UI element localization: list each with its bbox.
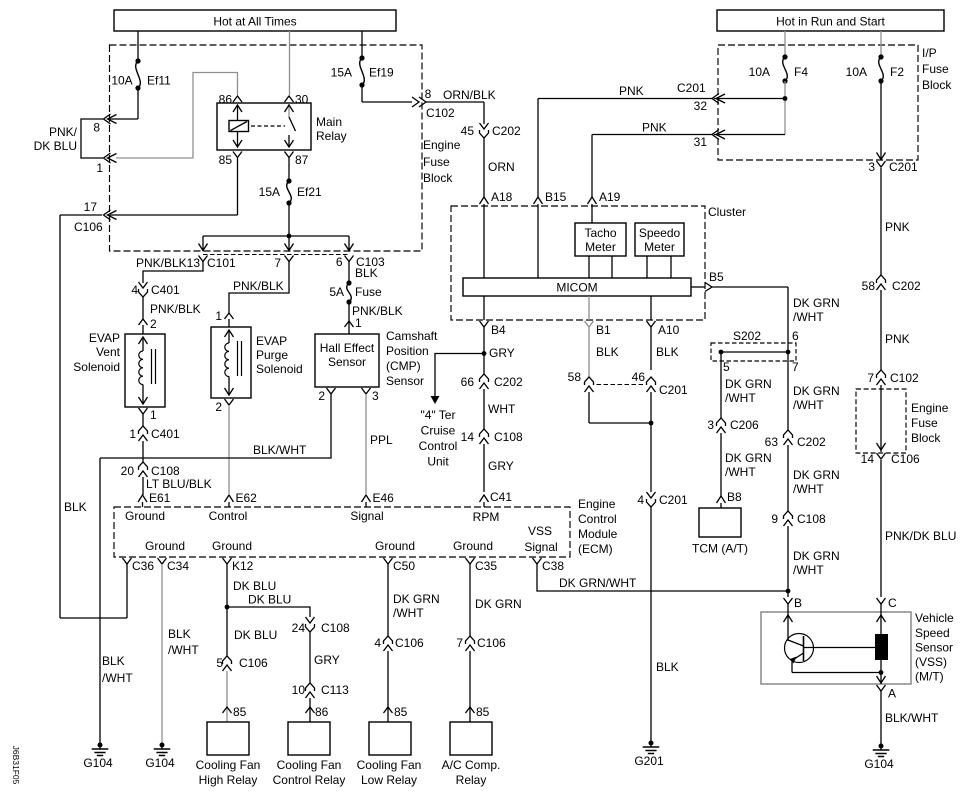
svg-text:Control: Control [209, 509, 248, 523]
svg-text:3: 3 [372, 389, 379, 403]
svg-text:58: 58 [862, 279, 876, 293]
svg-text:BLK: BLK [355, 266, 378, 280]
svg-text:Module: Module [578, 527, 618, 541]
svg-text:C401: C401 [151, 283, 180, 297]
svg-text:B5: B5 [709, 270, 724, 284]
svg-text:BLK/WHT: BLK/WHT [253, 443, 307, 457]
svg-text:2: 2 [318, 389, 325, 403]
svg-text:10A: 10A [111, 74, 132, 88]
svg-text:PPL: PPL [370, 433, 393, 447]
svg-text:Fuse: Fuse [911, 416, 938, 430]
svg-text:C106: C106 [477, 636, 506, 650]
svg-text:Meter: Meter [585, 240, 616, 254]
svg-text:Sensor: Sensor [328, 355, 366, 369]
svg-text:DK GRN: DK GRN [793, 468, 840, 482]
svg-text:E62: E62 [236, 491, 258, 505]
svg-text:DK GRN/WHT: DK GRN/WHT [559, 576, 637, 590]
svg-text:Sensor: Sensor [915, 641, 953, 655]
svg-text:Unit: Unit [427, 455, 449, 469]
svg-text:Main: Main [316, 115, 342, 129]
svg-text:Low Relay: Low Relay [361, 773, 417, 787]
svg-text:85: 85 [219, 153, 233, 167]
svg-text:Position: Position [386, 344, 429, 358]
svg-text:Relay: Relay [456, 773, 487, 787]
svg-text:PNK: PNK [885, 332, 910, 346]
svg-text:Engine: Engine [911, 401, 949, 415]
svg-text:Signal: Signal [524, 540, 557, 554]
svg-text:8: 8 [425, 87, 432, 101]
svg-text:8: 8 [93, 121, 100, 135]
svg-text:PNK/BLK13: PNK/BLK13 [136, 256, 200, 270]
svg-text:87: 87 [295, 153, 309, 167]
svg-text:C: C [888, 596, 897, 610]
svg-text:C102: C102 [426, 106, 455, 120]
svg-text:86: 86 [315, 705, 329, 719]
svg-text:1: 1 [215, 309, 222, 323]
svg-text:MICOM: MICOM [556, 281, 597, 295]
svg-text:3: 3 [868, 160, 875, 174]
svg-text:Ef21: Ef21 [297, 185, 322, 199]
svg-text:15A: 15A [259, 185, 280, 199]
svg-text:31: 31 [694, 135, 708, 149]
svg-text:Hall Effect: Hall Effect [320, 341, 375, 355]
svg-text:Block: Block [922, 78, 952, 92]
svg-text:B8: B8 [727, 490, 742, 504]
svg-text:1: 1 [355, 316, 362, 330]
svg-text:2: 2 [150, 317, 157, 331]
svg-text:7: 7 [792, 360, 799, 374]
svg-text:(CMP): (CMP) [386, 359, 421, 373]
svg-text:45: 45 [461, 124, 475, 138]
svg-text:15A: 15A [331, 66, 352, 80]
svg-text:6: 6 [792, 329, 799, 343]
svg-text:BLK/WHT: BLK/WHT [885, 711, 939, 725]
svg-text:C401: C401 [151, 427, 180, 441]
svg-text:VSS: VSS [528, 524, 552, 538]
svg-text:Cooling Fan: Cooling Fan [196, 758, 261, 772]
svg-text:RPM: RPM [473, 510, 500, 524]
svg-text:A: A [888, 687, 896, 701]
svg-text:Cruise: Cruise [421, 424, 456, 438]
svg-text:PNK: PNK [885, 220, 910, 234]
svg-text:C201: C201 [889, 160, 918, 174]
svg-text:C108: C108 [151, 464, 180, 478]
svg-text:DK GRN: DK GRN [793, 384, 840, 398]
svg-text:C113: C113 [321, 683, 349, 697]
svg-text:1: 1 [96, 161, 103, 175]
svg-text:C35: C35 [475, 559, 497, 573]
svg-text:4: 4 [131, 283, 138, 297]
svg-text:5: 5 [216, 656, 223, 670]
svg-text:Engine: Engine [423, 138, 461, 152]
svg-text:High Relay: High Relay [199, 773, 258, 787]
svg-text:A19: A19 [599, 190, 621, 204]
svg-text:DK GRN: DK GRN [393, 592, 440, 606]
svg-text:/WHT: /WHT [793, 310, 824, 324]
svg-text:B4: B4 [491, 323, 506, 337]
svg-text:G104: G104 [864, 757, 894, 771]
svg-text:85: 85 [233, 705, 247, 719]
svg-text:C202: C202 [492, 124, 521, 138]
svg-text:C102: C102 [890, 371, 919, 385]
svg-text:Ground: Ground [375, 539, 415, 553]
svg-text:/WHT: /WHT [793, 482, 824, 496]
svg-text:C201: C201 [659, 493, 688, 507]
svg-text:Sensor: Sensor [386, 374, 424, 388]
svg-text:Meter: Meter [644, 240, 675, 254]
svg-text:PNK: PNK [619, 84, 644, 98]
svg-text:DK GRN: DK GRN [475, 597, 522, 611]
svg-text:C106: C106 [74, 220, 103, 234]
svg-text:ORN/BLK: ORN/BLK [443, 88, 496, 102]
svg-text:46: 46 [632, 370, 646, 384]
svg-text:Speed: Speed [915, 626, 950, 640]
svg-text:E61: E61 [149, 491, 171, 505]
svg-text:C106: C106 [239, 656, 268, 670]
svg-text:Ground: Ground [212, 539, 252, 553]
svg-text:1: 1 [150, 408, 157, 422]
svg-text:Control: Control [578, 512, 617, 526]
svg-text:30: 30 [295, 93, 309, 107]
svg-text:C108: C108 [494, 430, 523, 444]
svg-text:BLK: BLK [596, 345, 619, 359]
svg-text:Control: Control [419, 439, 458, 453]
svg-text:Signal: Signal [350, 509, 383, 523]
svg-text:B15: B15 [545, 190, 567, 204]
svg-text:DK BLU: DK BLU [234, 628, 277, 642]
svg-text:GRY: GRY [488, 459, 514, 473]
svg-text:/WHT: /WHT [393, 606, 424, 620]
svg-text:(ECM): (ECM) [578, 542, 613, 556]
svg-text:C202: C202 [797, 435, 826, 449]
svg-text:TCM (A/T): TCM (A/T) [692, 542, 748, 556]
svg-text:B: B [794, 596, 802, 610]
svg-text:BLK: BLK [102, 654, 125, 668]
svg-text:C108: C108 [321, 621, 350, 635]
svg-text:6: 6 [336, 255, 343, 269]
svg-text:4: 4 [374, 636, 381, 650]
svg-text:86: 86 [219, 93, 233, 107]
svg-text:B1: B1 [596, 323, 611, 337]
svg-text:32: 32 [694, 99, 708, 113]
svg-text:A18: A18 [491, 190, 513, 204]
svg-text:C206: C206 [730, 418, 759, 432]
svg-text:Hot at All Times: Hot at All Times [213, 15, 296, 29]
svg-text:C41: C41 [490, 490, 512, 504]
svg-text:Block: Block [911, 431, 941, 445]
svg-text:G104: G104 [145, 756, 175, 770]
svg-text:PNK/BLK: PNK/BLK [233, 279, 284, 293]
svg-text:17: 17 [84, 200, 98, 214]
svg-text:EVAP: EVAP [256, 334, 287, 348]
svg-text:24: 24 [292, 621, 306, 635]
svg-text:Camshaft: Camshaft [386, 329, 438, 343]
svg-text:G104: G104 [83, 756, 113, 770]
svg-text:Ef19: Ef19 [369, 66, 394, 80]
svg-text:C106: C106 [395, 636, 424, 650]
svg-text:Control Relay: Control Relay [273, 773, 346, 787]
svg-text:E46: E46 [373, 491, 395, 505]
svg-text:C50: C50 [393, 559, 415, 573]
svg-text:58: 58 [568, 370, 582, 384]
svg-text:Solenoid: Solenoid [73, 360, 120, 374]
svg-text:14: 14 [461, 430, 475, 444]
svg-text:Ground: Ground [453, 539, 493, 553]
svg-text:10: 10 [292, 683, 306, 697]
svg-text:Purge: Purge [256, 348, 288, 362]
svg-text:/WHT: /WHT [168, 643, 199, 657]
svg-text:20: 20 [121, 464, 135, 478]
svg-text:K12: K12 [232, 559, 254, 573]
svg-text:Block: Block [423, 171, 453, 185]
svg-text:BLK: BLK [656, 660, 679, 674]
svg-text:C106: C106 [891, 452, 920, 466]
svg-text:66: 66 [461, 375, 475, 389]
svg-text:BLK: BLK [64, 500, 87, 514]
svg-text:Hot in Run and Start: Hot in Run and Start [776, 15, 885, 29]
svg-text:GRY: GRY [489, 346, 515, 360]
svg-text:Ground: Ground [145, 539, 185, 553]
svg-text:F2: F2 [890, 65, 904, 79]
svg-text:C201: C201 [659, 383, 688, 397]
svg-text:Fuse: Fuse [423, 155, 450, 169]
svg-text:(M/T): (M/T) [915, 670, 944, 684]
svg-text:7: 7 [274, 256, 281, 270]
svg-text:4: 4 [637, 493, 644, 507]
svg-text:DK GRN: DK GRN [725, 451, 772, 465]
svg-text:DK GRN: DK GRN [793, 549, 840, 563]
svg-text:7: 7 [456, 636, 463, 650]
svg-text:DK GRN: DK GRN [793, 296, 840, 310]
svg-text:/WHT: /WHT [725, 391, 756, 405]
svg-text:C101: C101 [207, 256, 236, 270]
svg-text:LT BLU/BLK: LT BLU/BLK [146, 477, 212, 491]
svg-text:Cooling Fan: Cooling Fan [277, 758, 342, 772]
svg-text:(VSS): (VSS) [915, 655, 947, 669]
svg-text:C202: C202 [494, 375, 523, 389]
svg-text:Solenoid: Solenoid [256, 362, 303, 376]
svg-text:5: 5 [723, 360, 730, 374]
svg-text:/WHT: /WHT [102, 671, 133, 685]
svg-text:7: 7 [867, 371, 874, 385]
svg-text:Fuse: Fuse [922, 62, 949, 76]
svg-text:F4: F4 [794, 65, 808, 79]
svg-text:9: 9 [771, 512, 778, 526]
svg-text:Ground: Ground [125, 509, 165, 523]
svg-text:A/C Comp.: A/C Comp. [442, 758, 501, 772]
svg-text:Ef11: Ef11 [147, 74, 171, 88]
svg-text:Speedo: Speedo [639, 226, 681, 240]
svg-text:ORN: ORN [488, 160, 515, 174]
svg-text:Tacho: Tacho [584, 226, 616, 240]
svg-text:10A: 10A [846, 65, 867, 79]
svg-text:/WHT: /WHT [793, 563, 824, 577]
svg-text:/WHT: /WHT [793, 398, 824, 412]
svg-text:PNK/: PNK/ [49, 125, 78, 139]
svg-text:/WHT: /WHT [725, 465, 756, 479]
svg-text:DK BLU: DK BLU [248, 593, 291, 607]
svg-text:I/P: I/P [922, 46, 937, 60]
svg-text:85: 85 [394, 705, 408, 719]
svg-text:C108: C108 [797, 512, 826, 526]
svg-text:WHT: WHT [488, 402, 516, 416]
svg-text:"4" Ter: "4" Ter [421, 408, 456, 422]
svg-text:DK BLU: DK BLU [34, 139, 77, 153]
svg-text:Fuse: Fuse [355, 285, 382, 299]
svg-text:EVAP: EVAP [89, 331, 120, 345]
svg-text:DK GRN: DK GRN [725, 377, 772, 391]
svg-text:2: 2 [215, 400, 222, 414]
svg-text:85: 85 [476, 705, 490, 719]
svg-text:Vehicle: Vehicle [915, 611, 954, 625]
svg-text:A10: A10 [658, 323, 680, 337]
svg-text:14: 14 [861, 452, 875, 466]
svg-text:5A: 5A [329, 285, 344, 299]
svg-text:C201: C201 [677, 81, 706, 95]
svg-text:Cooling Fan: Cooling Fan [357, 758, 422, 772]
svg-text:BLK: BLK [656, 345, 679, 359]
svg-text:3: 3 [707, 418, 714, 432]
svg-text:DK BLU: DK BLU [233, 579, 276, 593]
svg-text:Relay: Relay [316, 129, 347, 143]
svg-text:C34: C34 [167, 559, 189, 573]
svg-text:Cluster: Cluster [708, 205, 746, 219]
svg-text:GRY: GRY [314, 653, 340, 667]
svg-text:BLK: BLK [168, 627, 191, 641]
svg-text:G201: G201 [634, 754, 664, 768]
svg-text:Vent: Vent [96, 345, 121, 359]
svg-text:63: 63 [765, 435, 779, 449]
svg-text:J6B31F05: J6B31F05 [11, 746, 21, 785]
svg-text:PNK/DK BLU: PNK/DK BLU [885, 529, 956, 543]
svg-text:1: 1 [129, 427, 136, 441]
svg-text:Engine: Engine [578, 497, 616, 511]
svg-text:C38: C38 [542, 559, 564, 573]
svg-text:PNK: PNK [642, 121, 667, 135]
svg-text:C202: C202 [892, 279, 921, 293]
svg-text:S202: S202 [733, 329, 761, 343]
svg-text:10A: 10A [749, 65, 770, 79]
svg-text:C36: C36 [132, 559, 154, 573]
svg-text:PNK/BLK: PNK/BLK [150, 302, 201, 316]
